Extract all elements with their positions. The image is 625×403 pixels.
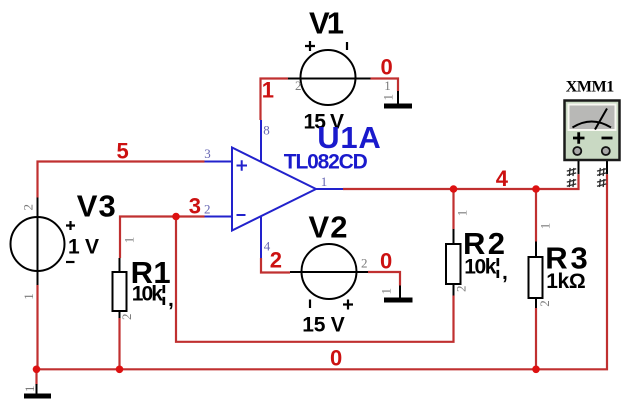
- svg-text:XMM1: XMM1: [566, 79, 615, 96]
- svg-text:4: 4: [496, 166, 509, 191]
- svg-text:1: 1: [384, 78, 391, 93]
- svg-text:1: 1: [537, 223, 552, 230]
- svg-text:2: 2: [453, 286, 468, 293]
- svg-text:1kΩ: 1kΩ: [546, 270, 586, 293]
- svg-text:5: 5: [117, 138, 129, 163]
- svg-text:2: 2: [361, 256, 368, 271]
- svg-text:2: 2: [204, 202, 211, 217]
- svg-text:1: 1: [121, 237, 136, 244]
- svg-text:3: 3: [189, 193, 201, 218]
- svg-text:V3: V3: [77, 188, 116, 223]
- svg-text:1: 1: [380, 94, 395, 101]
- svg-text:1: 1: [321, 174, 328, 189]
- svg-text:V1: V1: [309, 5, 344, 40]
- svg-text:2: 2: [537, 300, 552, 307]
- svg-text:2: 2: [295, 78, 302, 93]
- svg-text:2: 2: [119, 314, 134, 321]
- svg-text:V2: V2: [309, 209, 348, 244]
- svg-text:TL082CD: TL082CD: [284, 151, 368, 174]
- svg-text:1: 1: [22, 386, 37, 393]
- svg-text:,: ,: [168, 288, 174, 311]
- svg-text:2: 2: [20, 204, 35, 211]
- svg-text:0: 0: [330, 345, 342, 370]
- svg-text:0: 0: [381, 55, 393, 80]
- svg-text:10k¦: 10k¦: [132, 283, 167, 306]
- svg-text:10k¦: 10k¦: [464, 256, 501, 279]
- svg-text:3: 3: [204, 146, 211, 161]
- svg-text:1 V: 1 V: [68, 235, 99, 258]
- svg-text:1: 1: [379, 288, 394, 295]
- svg-text:15 V: 15 V: [302, 314, 345, 337]
- svg-text:1: 1: [454, 210, 469, 217]
- svg-text:0: 0: [380, 249, 392, 274]
- svg-text:,: ,: [502, 261, 508, 284]
- svg-text:8: 8: [263, 123, 270, 138]
- svg-text:4: 4: [264, 238, 271, 253]
- svg-text:1: 1: [262, 77, 274, 102]
- svg-text:1: 1: [21, 293, 36, 300]
- svg-text:2: 2: [270, 248, 282, 273]
